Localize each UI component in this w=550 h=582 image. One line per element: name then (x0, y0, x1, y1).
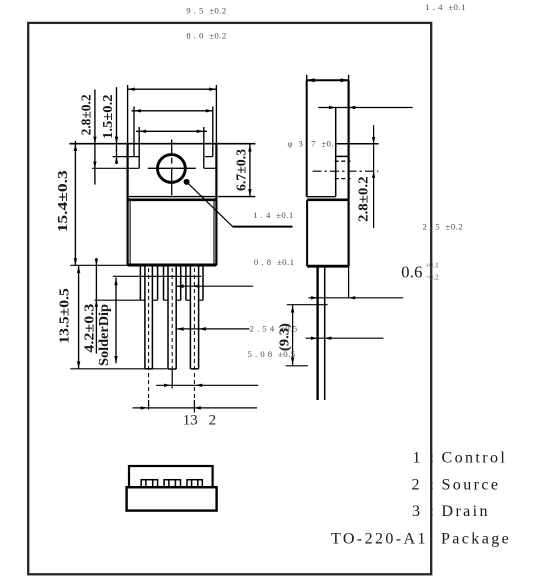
svg-text:15.4±0.3: 15.4±0.3 (55, 170, 70, 232)
side view: dimension (9.3) vertical (286, 305, 328, 366)
side view: body top edge (307, 199, 349, 202)
bottom view: body outline (lower) (127, 487, 217, 510)
side view: body left edge (306, 200, 308, 266)
bottom view: tab outline (upper) (129, 466, 213, 487)
svg-text:Control: Control (442, 450, 508, 467)
front view: body bottom edge (128, 264, 217, 267)
front view: dimension 13.5 vertical (lead length) (77, 265, 80, 369)
svg-text:+0.1: +0.1 (425, 261, 439, 270)
side view: tab step line (307, 196, 336, 198)
front view: dimension SolderDip vertical (114, 278, 117, 364)
svg-text:3: 3 (412, 503, 422, 520)
front view: bottom dimension line 2 (outer lead span) (133, 406, 258, 409)
front view: lead center lines (dashed) (149, 268, 195, 403)
side view: dimension 0.6 (lead thickness) (306, 337, 384, 340)
side view: tab top level line with 2.8 extension (336, 143, 379, 145)
side view: tab inner line (335, 108, 337, 197)
svg-text::: : (430, 476, 437, 493)
svg-text:2 . 5 ±0.2: 2 . 5 ±0.2 (423, 221, 464, 231)
front view: hole crosshair (171, 140, 173, 154)
svg-text:6.7±0.3: 6.7±0.3 (234, 149, 249, 191)
svg-text:Drain: Drain (442, 503, 490, 520)
front view: left notch (113, 156, 140, 158)
svg-text:2.8±0.2: 2.8±0.2 (79, 94, 94, 135)
front view: solder dip boundary line (113, 275, 202, 277)
front view: body inner edge lines (129, 200, 131, 264)
front view: lead 2 (middle) (164, 266, 181, 369)
svg-text:1 . 4 ±0.1: 1 . 4 ±0.1 (425, 2, 466, 12)
side view: dimension 2.5 (body depth) (308, 296, 403, 299)
front view: lead tip extension line (left) (70, 368, 167, 370)
front view: dimension line inner notch width (136, 127, 207, 168)
front view: dimension 6.7 vertical (tab height, right) (218, 144, 255, 197)
svg-text:SolderDip: SolderDip (96, 304, 111, 366)
svg-text:1.5±0.2: 1.5±0.2 (100, 94, 115, 139)
front view: dimension 2.8 vertical (tab step) (93, 90, 96, 185)
front view: tab top edge with extensions (70, 143, 256, 145)
side view: body bottom edge (307, 265, 349, 268)
front view: dimension 15.4 vertical (body+tab height) (74, 141, 77, 265)
side view: top edge / dimension line (307, 75, 349, 82)
front view: tab right edge (215, 85, 217, 144)
svg-text:0 . 8 ±0.1: 0 . 8 ±0.1 (254, 257, 295, 267)
side view: left edge (upper) (306, 80, 308, 197)
front view: body bottom extension line (left) (70, 264, 128, 266)
side view: hole center line (313, 170, 379, 172)
svg-text:TO-220-A1: TO-220-A1 (331, 530, 428, 547)
front view: lead 1 (left) (140, 266, 157, 368)
svg-text:4.2±0.3: 4.2±0.3 (82, 303, 97, 352)
side view: lead profile (316, 266, 318, 400)
svg-text:Source: Source (442, 476, 501, 493)
front view: dimension 4.2 vertical (shoulder length) (95, 258, 98, 354)
front view: right notch (205, 156, 213, 158)
front view: leader 0.8 (lead width) (176, 284, 253, 288)
side view: dimension 2.8 vertical (372, 125, 375, 228)
front view: tab/body separation lines (128, 196, 217, 198)
front view: dimension line 9.5 (top width) (127, 88, 217, 91)
bottom view: lead 2 section (164, 480, 180, 488)
bottom view: lead 3 section (187, 480, 202, 488)
side view: tab thickness dimension 1.4 (318, 106, 413, 109)
front view: dimension 1.5 vertical (notch depth) (115, 87, 118, 164)
front view: lead 1 shoulder step line with left extension (95, 299, 145, 301)
svg-text:13: 13 (183, 413, 198, 429)
svg-text:Package: Package (441, 530, 511, 547)
svg-text:9 . 5 ±0.2: 9 . 5 ±0.2 (186, 6, 227, 16)
svg-text:13.5±0.5: 13.5±0.5 (57, 288, 72, 344)
svg-text:2: 2 (209, 413, 217, 429)
front view: dimension line 8.0 (notch outer width) (132, 107, 214, 157)
svg-text:2: 2 (412, 476, 422, 493)
svg-text::: : (430, 503, 437, 520)
svg-text:8 . 0 ±0.2: 8 . 0 ±0.2 (186, 30, 227, 40)
side view: hole hidden lines (dashed) (335, 161, 351, 178)
front view: bottom dimension line (lead pitch) (156, 384, 258, 387)
svg-text:1: 1 (413, 450, 423, 467)
bottom view: lead 1 section (141, 480, 157, 488)
svg-text:1 . 4 ±0.1: 1 . 4 ±0.1 (253, 210, 294, 220)
svg-text:2.8±0.2: 2.8±0.2 (356, 176, 371, 222)
svg-text:0.6: 0.6 (401, 263, 422, 282)
side view: notch level line (336, 155, 349, 157)
front view: mounting hole (158, 155, 186, 183)
svg-text:φ 3 . 7 ±0.1: φ 3 . 7 ±0.1 (288, 138, 339, 148)
drawing frame border (28, 23, 431, 574)
svg-text::: : (430, 450, 437, 467)
front view: tab left edge (127, 85, 129, 144)
svg-text:−0.2: −0.2 (425, 272, 439, 281)
front view: dimension 2.54 (lead gap) (177, 327, 250, 331)
front view: hole leader line 1.4 (184, 179, 293, 227)
side view: right edge (348, 80, 350, 266)
svg-text:(9.3): (9.3) (276, 323, 291, 351)
front view: lead 3 (right) (186, 266, 203, 368)
